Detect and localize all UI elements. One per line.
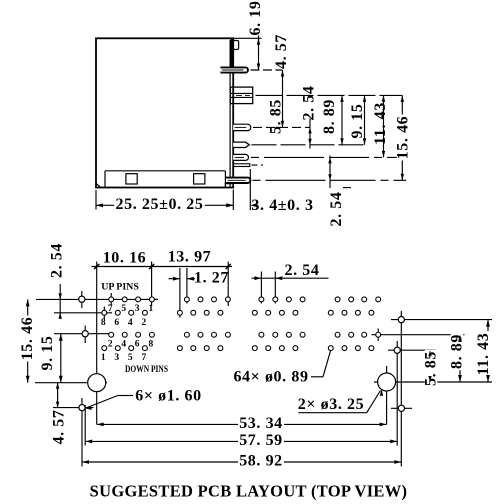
svg-text:DOWN PINS: DOWN PINS bbox=[125, 363, 168, 374]
dim 53.34 line bbox=[97, 423, 387, 425]
dim 58.92 line bbox=[82, 461, 401, 463]
base foot square 2 bbox=[194, 174, 205, 184]
svg-text:2. 54: 2. 54 bbox=[328, 192, 345, 227]
dim 6.19 line stub bbox=[258, 36, 260, 45]
pin 7 (bottom, thick) bbox=[226, 178, 250, 183]
ext line 2.54 left bbox=[260, 272, 262, 304]
pin 6 centerline dash bbox=[252, 164, 264, 166]
ext line 2.54 right bbox=[274, 272, 276, 304]
svg-text:3: 3 bbox=[135, 304, 140, 314]
dim 15.46 text bbox=[397, 115, 409, 161]
svg-text:4. 57: 4. 57 bbox=[51, 410, 68, 445]
svg-text:5: 5 bbox=[121, 304, 126, 314]
svg-text:2× ø3. 25: 2× ø3. 25 bbox=[298, 396, 365, 413]
mounting hole L2 (ø1.60) bbox=[82, 331, 88, 337]
hole RC horizontal arm bbox=[391, 407, 412, 409]
svg-text:58. 92: 58. 92 bbox=[239, 453, 283, 470]
hole RB vertical line down to 57.59 dim bbox=[396, 341, 398, 446]
svg-text:6× ø1. 60: 6× ø1. 60 bbox=[135, 388, 202, 405]
ext line hole RA row right bbox=[391, 319, 492, 321]
dim 25.25 text bbox=[114, 198, 205, 210]
dim 25.25 extension line left bbox=[95, 190, 97, 210]
pin 6 (thin) bbox=[233, 164, 250, 167]
dim 2.54 lower leader stub bbox=[343, 187, 351, 189]
svg-text:9. 15: 9. 15 bbox=[39, 336, 56, 371]
dim 9.15 line bbox=[364, 95, 366, 144]
pin 7 hole vertical arm bbox=[110, 293, 112, 306]
connector body outline (side view) bbox=[96, 38, 233, 187]
svg-text:6: 6 bbox=[114, 318, 119, 328]
hole L2 vertical arm bbox=[84, 326, 86, 344]
svg-text:64× ø0. 89: 64× ø0. 89 bbox=[233, 369, 308, 386]
base plate left edge bbox=[104, 171, 106, 188]
svg-text:3. 4±0. 3: 3. 4±0. 3 bbox=[251, 197, 313, 214]
dim 10.16/13.97 line bbox=[92, 266, 233, 268]
body rear wall inner line bbox=[229, 40, 231, 187]
dim 2.54 line (pin3-pin4) bbox=[309, 119, 311, 149]
base bottom-right step bbox=[225, 184, 233, 188]
pin 8 hole vertical arm bbox=[103, 307, 105, 320]
base plate top edge bbox=[105, 170, 225, 172]
pin 2 centerline dash bbox=[236, 94, 250, 96]
ext line big hole L column (full height) bbox=[96, 262, 98, 425]
svg-text:11. 43: 11. 43 bbox=[475, 333, 492, 376]
mounting hole RA (ø1.60) bbox=[398, 317, 404, 323]
svg-text:5. 85: 5. 85 bbox=[423, 351, 440, 386]
label 6x dia1.60 leader bbox=[118, 395, 133, 397]
svg-text:2. 54: 2. 54 bbox=[285, 262, 320, 279]
svg-text:53. 34: 53. 34 bbox=[239, 415, 283, 432]
svg-text:4. 57: 4. 57 bbox=[273, 34, 290, 69]
svg-text:11. 43: 11. 43 bbox=[372, 102, 389, 145]
svg-text:7: 7 bbox=[108, 304, 113, 314]
body top edge extension to dim 4.57 bbox=[233, 37, 261, 39]
ext line row A left (through hole L1 and pin 7) bbox=[36, 298, 158, 300]
pin 3 centerline dash bbox=[253, 126, 310, 128]
svg-text:2: 2 bbox=[142, 318, 147, 328]
pin 5 centerline dash bbox=[251, 156, 406, 158]
ext line 1.27 right (to pin row A) bbox=[186, 268, 188, 304]
mounting hole L3 (ø1.60) bbox=[79, 405, 85, 411]
svg-text:UP PINS: UP PINS bbox=[101, 282, 139, 293]
ext line x=151.5 (10.16 right) bbox=[151, 262, 153, 307]
pin 3 bbox=[233, 124, 251, 130]
dim 4.57 line bbox=[258, 38, 260, 70]
hole L1 vertical arm bbox=[81, 291, 83, 308]
dim 3.4 extension line left bbox=[232, 190, 234, 211]
label 2x dia3.25 leader underline bbox=[298, 412, 366, 414]
svg-text:7: 7 bbox=[142, 353, 147, 363]
svg-text:5: 5 bbox=[128, 353, 133, 363]
UP PINS label bbox=[101, 282, 139, 293]
g1 row A hole 4 horizontal arm bbox=[146, 298, 158, 300]
svg-text:9. 15: 9. 15 bbox=[349, 104, 366, 139]
dim 11.43 right line bbox=[487, 320, 489, 382]
dim 15.46 line bbox=[401, 95, 403, 180]
hole L3 vertical line down to 58.92 dim bbox=[81, 398, 83, 467]
dim 5.85 line bbox=[282, 70, 284, 127]
dim 3.4 extension line right bbox=[249, 169, 251, 210]
DOWN PINS label bbox=[125, 363, 168, 374]
dim 2.54 left line bbox=[59, 284, 61, 319]
svg-text:1. 27: 1. 27 bbox=[194, 270, 229, 287]
dim 5.85 right text bbox=[425, 350, 437, 387]
svg-text:8: 8 bbox=[149, 340, 154, 350]
svg-text:25. 25±0. 25: 25. 25±0. 25 bbox=[116, 196, 204, 213]
ext line big hole row right bbox=[374, 381, 492, 383]
svg-text:5. 85: 5. 85 bbox=[268, 99, 285, 134]
pin 7 centerline dash bbox=[253, 179, 407, 181]
pin numbers row C (2 4 6 8) bbox=[108, 340, 154, 350]
svg-text:3: 3 bbox=[114, 353, 119, 363]
svg-text:2. 54: 2. 54 bbox=[49, 243, 66, 278]
ext line row C right (through g4 hole) bbox=[372, 334, 465, 336]
pin 4 centerline dash bbox=[252, 144, 365, 146]
svg-text:13. 97: 13. 97 bbox=[168, 249, 212, 266]
dim 58.92 text bbox=[238, 455, 284, 467]
pin 1 (top, thick) bbox=[220, 67, 248, 72]
pin 2 slit lines bbox=[230, 92, 252, 94]
rear wall thick upper segment bbox=[230, 38, 232, 70]
base plate chamfer mark bottom-left bbox=[97, 184, 101, 187]
dim 11.43 right text bbox=[477, 331, 489, 377]
svg-text:1: 1 bbox=[149, 304, 154, 314]
dim 3.4 arrows bbox=[226, 203, 233, 207]
svg-text:1: 1 bbox=[101, 353, 106, 363]
pin numbers row D (1 3 5 7) bbox=[101, 353, 147, 363]
g4 row C hole vertical arm bbox=[377, 329, 379, 342]
pin 4 (flat tip) bbox=[233, 142, 249, 147]
dim 25.25 dimension line bbox=[96, 204, 233, 206]
ext line hole L3 row bbox=[53, 407, 94, 409]
svg-text:15. 46: 15. 46 bbox=[19, 317, 36, 361]
ext line 1.27 left (to pin row B) bbox=[179, 268, 181, 318]
svg-text:57. 59: 57. 59 bbox=[239, 432, 283, 449]
top latch tab bbox=[233, 41, 238, 50]
mounting hole L1 (ø1.60) bbox=[79, 296, 85, 302]
pin numbers row A (7 5 3 1) bbox=[108, 304, 154, 314]
svg-text:15. 46: 15. 46 bbox=[395, 116, 412, 160]
pin numbers row B (8 6 4 2) bbox=[101, 318, 147, 328]
svg-text:8: 8 bbox=[101, 318, 106, 328]
dim 2.54 top text bbox=[283, 264, 320, 276]
svg-text:8. 89: 8. 89 bbox=[321, 99, 338, 134]
big hole R vertical line down to 53.34 dim bbox=[386, 366, 388, 424]
label 64x dia0.89 leader bbox=[311, 376, 323, 378]
ext line row B left (through pin 8) bbox=[54, 312, 112, 314]
dim 15.46 left text bbox=[21, 316, 33, 362]
dim 8.89 right line bbox=[459, 335, 461, 382]
dim 57.59 text bbox=[238, 434, 284, 446]
ext line big hole row left bbox=[35, 382, 107, 384]
pin 5 bbox=[233, 154, 248, 160]
svg-text:4: 4 bbox=[121, 340, 126, 350]
mounting hole RC (ø1.60) bbox=[398, 405, 404, 411]
holes RA/RC vertical line down to 58.92 dim bbox=[400, 311, 402, 467]
svg-text:10. 16: 10. 16 bbox=[103, 250, 147, 267]
svg-text:2: 2 bbox=[108, 340, 113, 350]
svg-text:8. 89: 8. 89 bbox=[449, 334, 466, 369]
dim 9.15 left line bbox=[60, 334, 62, 383]
dim 11.43 line bbox=[383, 95, 385, 157]
dim 2.54 lower line (pin5-pin7) bbox=[329, 156, 331, 189]
ext line x=228.7 (13.97 right) bbox=[227, 262, 229, 307]
64 pin holes (4 groups of 16) bbox=[102, 297, 381, 351]
pin 2 reference centerline (long) bbox=[256, 94, 403, 96]
big hole L (ø3.25) bbox=[88, 374, 106, 392]
dim 53.34 text bbox=[238, 417, 284, 429]
dim 5.85 right line bbox=[429, 350, 431, 382]
dim 1.27 arrows bbox=[169, 278, 180, 280]
mounting hole RB (ø1.60) bbox=[394, 347, 400, 353]
ext line hole RB row right bbox=[388, 349, 436, 351]
big hole R (ø3.25) bbox=[378, 373, 396, 391]
dim 8.89 line bbox=[341, 95, 343, 144]
dim 2.54 top line bbox=[252, 277, 329, 279]
svg-text:4: 4 bbox=[128, 318, 133, 328]
dim 8.89 right text bbox=[451, 333, 463, 370]
dim 57.59 line bbox=[85, 440, 397, 442]
base foot square 1 bbox=[126, 174, 137, 184]
ext line row C left (through hole L2) bbox=[54, 333, 113, 335]
svg-text:6. 19: 6. 19 bbox=[247, 1, 264, 36]
svg-text:SUGGESTED PCB LAYOUT (TOP VIEW: SUGGESTED PCB LAYOUT (TOP VIEW) bbox=[90, 482, 408, 501]
dim 15.46 left line bbox=[27, 299, 29, 382]
hole L2 column line down to 57.59 dim bbox=[84, 405, 86, 446]
dim 4.57 left line bbox=[57, 383, 59, 408]
base plate right step vertical bbox=[224, 171, 226, 188]
svg-text:2. 54: 2. 54 bbox=[300, 86, 317, 121]
svg-text:6: 6 bbox=[135, 340, 140, 350]
pin 1 centerline dash bbox=[251, 69, 283, 71]
pin 2 housing block bbox=[230, 87, 252, 104]
